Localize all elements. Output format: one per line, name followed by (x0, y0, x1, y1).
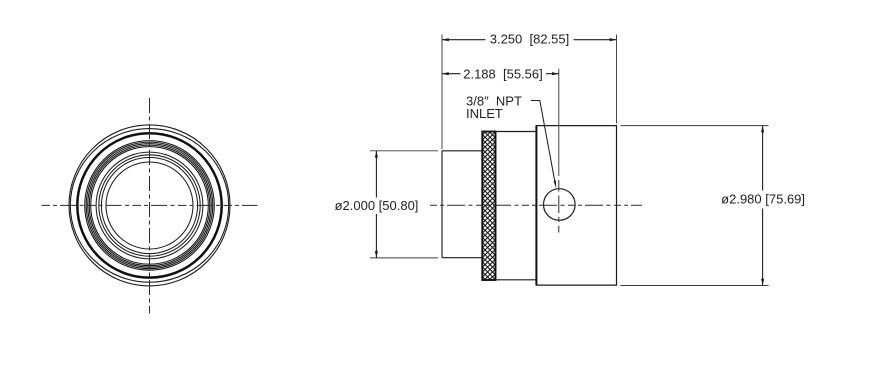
middle section (496, 132, 537, 280)
arrowheads 2.188 (442, 72, 449, 75)
svg-text:INLET: INLET (466, 106, 503, 121)
svg-text:ø2.980 [75.69]: ø2.980 [75.69] (721, 192, 805, 207)
arrowheads 2.980 (761, 126, 764, 133)
inner thin circles (96, 152, 203, 259)
bottom extension line (621, 285, 769, 287)
left extension line (441, 35, 443, 150)
right extension line (to hole center) (558, 69, 560, 177)
side view horizontal centerline (430, 204, 642, 206)
dim line segments (442, 39, 486, 41)
front view vertical centerline (149, 98, 151, 314)
body rectangle (536, 126, 616, 286)
arrowheads 2.000 (375, 151, 378, 158)
thick circle (77, 133, 221, 277)
body left edge (visible step line, thicker) (535, 126, 537, 286)
leader line (531, 101, 556, 186)
top extension line (621, 125, 769, 127)
svg-text:3.250 [82.55]: 3.250 [82.55] (490, 31, 570, 46)
front view horizontal centerline (42, 204, 258, 206)
bottom extension line (370, 257, 438, 259)
outer circle thin (69, 125, 230, 286)
small cylinder outline (442, 151, 482, 258)
knurl ring circles (85, 141, 215, 271)
leader arrowhead (554, 181, 557, 189)
inlet hole circle (544, 189, 576, 221)
svg-text:ø2.000 [50.80]: ø2.000 [50.80] (335, 198, 419, 213)
second thin circle (70, 129, 228, 283)
knurl band crosshatched (482, 132, 495, 281)
svg-text:2.188 [55.56]: 2.188 [55.56] (463, 66, 543, 81)
right extension line (616, 35, 618, 124)
arrowheads 3.250 (442, 38, 449, 41)
hole vertical centerline (558, 180, 560, 233)
top extension line (370, 150, 438, 152)
